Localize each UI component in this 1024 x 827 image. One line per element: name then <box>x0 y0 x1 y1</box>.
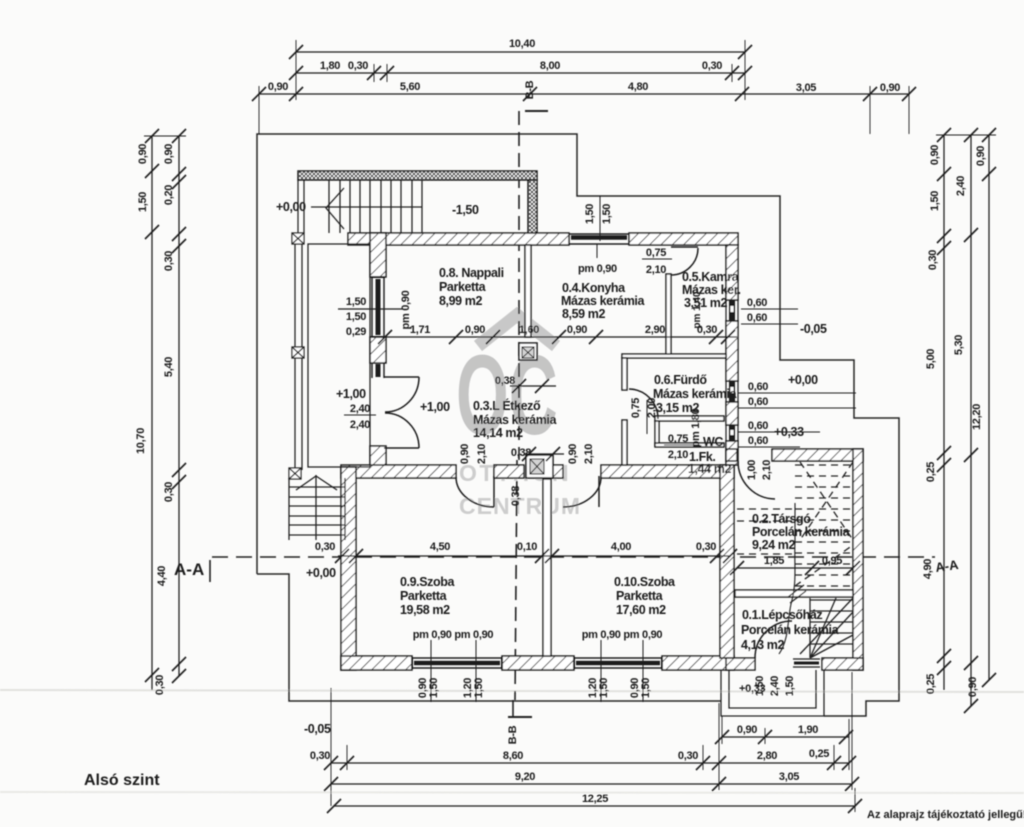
french double door to terrace leaf bottom <box>384 447 419 449</box>
right exterior wall segment below wc window <box>726 441 738 465</box>
svg-text:0,60: 0,60 <box>748 396 768 408</box>
bottom dim row A (0.90 1.90) <box>715 716 853 744</box>
svg-text:5,30: 5,30 <box>953 335 965 355</box>
kamra door leaf <box>671 246 698 248</box>
svg-text:0,20: 0,20 <box>163 185 175 205</box>
svg-text:14,14 m2: 14,14 m2 <box>473 426 523 440</box>
door to szoba 0.9 leaf <box>493 476 495 507</box>
svg-text:0,60: 0,60 <box>747 297 767 309</box>
furdo door dim extension <box>646 400 648 434</box>
svg-text:1,50: 1,50 <box>601 204 613 224</box>
svg-text:0.9.Szoba: 0.9.Szoba <box>400 575 456 589</box>
svg-text:0,90: 0,90 <box>137 144 149 164</box>
bottom window 0.9 leaders <box>431 640 476 702</box>
wide dashed rungs behind text <box>737 509 795 554</box>
svg-text:0,38: 0,38 <box>495 375 515 387</box>
svg-text:5,40: 5,40 <box>163 357 175 377</box>
svg-text:2,40: 2,40 <box>350 419 370 431</box>
svg-text:0,75: 0,75 <box>668 433 688 445</box>
upper terrace stair walk line <box>311 206 422 208</box>
wc door dim underline <box>664 444 700 446</box>
door to szoba 0.10 arc <box>563 477 601 507</box>
terrace outer rail lines <box>294 244 296 348</box>
top dim row 2 (1.80 0.30 8.00 0.30) <box>289 64 752 82</box>
svg-text:9,24 m2: 9,24 m2 <box>752 538 796 552</box>
svg-text:1,50: 1,50 <box>784 676 796 696</box>
bottom extension lines <box>331 672 855 812</box>
svg-text:Mázas kerámia: Mázas kerámia <box>653 387 737 401</box>
stair above (dashed) in room 0.2 rungs <box>737 462 853 586</box>
svg-text:0.4.Konyha: 0.4.Konyha <box>562 281 626 295</box>
svg-text:8,59 m2: 8,59 m2 <box>562 307 606 321</box>
right exterior wall segment kamra-furdo <box>726 321 738 381</box>
svg-text:1,00: 1,00 <box>746 460 758 480</box>
left terrace structures <box>289 233 824 716</box>
svg-text:19,58 m2: 19,58 m2 <box>400 603 450 617</box>
svg-text:pm 0,90 pm 0,90: pm 0,90 pm 0,90 <box>582 629 663 641</box>
interior dim line y337 (1.71 0.90 1.60 0.90 2.90 0.30) <box>378 330 737 344</box>
lower-left garden stair treads <box>289 487 345 535</box>
svg-text:WC: WC <box>703 435 723 449</box>
svg-text:1,50: 1,50 <box>640 678 652 698</box>
svg-text:pm 0,90: pm 0,90 <box>400 290 412 329</box>
bottom window szoba 0.10 <box>574 657 662 669</box>
svg-text:0,30: 0,30 <box>163 251 175 271</box>
upper terrace left edge wall <box>297 180 299 233</box>
bottom window 0.10 leaders <box>601 640 643 702</box>
svg-text:1,71: 1,71 <box>410 324 430 336</box>
right exterior wall upper segment (kamra) <box>726 245 738 300</box>
kitchen pm leader <box>596 244 598 258</box>
french double door to terrace leaf top <box>384 376 419 378</box>
upper terrace balustrade cross-hatched band <box>298 171 537 180</box>
bottom window stairhall 0.1 <box>793 659 820 667</box>
svg-text:0,90: 0,90 <box>459 444 471 464</box>
main top wall (right of kitchen window) <box>629 233 738 245</box>
bottom dim row D (12.25) <box>327 799 862 813</box>
terrace post bottom <box>289 468 301 479</box>
svg-text:0,25: 0,25 <box>925 462 937 482</box>
svg-text:0,60: 0,60 <box>748 435 768 447</box>
svg-text:+0,00: +0,00 <box>276 200 306 214</box>
svg-text:3,05: 3,05 <box>796 82 816 94</box>
french door arc top <box>385 377 419 412</box>
svg-text:0,60: 0,60 <box>748 381 768 393</box>
svg-text:0,30: 0,30 <box>154 675 166 695</box>
svg-text:Az alaprajz tájékoztató jelleg: Az alaprajz tájékoztató jellegű! <box>867 809 1024 821</box>
kamra door dim underline <box>642 258 672 260</box>
svg-text:3,05: 3,05 <box>779 771 799 783</box>
window dim 0.60 pair furdo <box>738 393 856 408</box>
svg-text:0.5.Kamra: 0.5.Kamra <box>682 270 740 284</box>
svg-text:4,40: 4,40 <box>156 566 168 586</box>
svg-text:0,30: 0,30 <box>702 60 722 72</box>
svg-text:-0,05: -0,05 <box>304 722 331 736</box>
window 1.50 stack underline upper-left <box>338 308 403 310</box>
svg-text:1,50: 1,50 <box>598 678 610 698</box>
svg-text:Mázas kerámia: Mázas kerámia <box>561 294 645 308</box>
svg-text:+1,00: +1,00 <box>336 387 366 401</box>
middle wall band (left part) <box>341 465 456 478</box>
upper-left exterior wall segment below windows <box>370 446 386 467</box>
entry section bottom wall left of door <box>726 658 755 670</box>
svg-text:2,40: 2,40 <box>769 676 781 696</box>
svg-text:0,30: 0,30 <box>315 541 335 553</box>
lower-left exterior wall <box>341 467 356 670</box>
svg-text:0,25: 0,25 <box>925 674 937 694</box>
svg-text:12,20: 12,20 <box>971 404 983 430</box>
scan artifact line lower <box>0 792 1024 793</box>
svg-text:1,90: 1,90 <box>798 724 818 736</box>
left wall window upper <box>371 277 385 337</box>
front entrance door arc in 0.1 <box>755 621 792 658</box>
right exterior wall segment furdo-wc <box>726 402 738 425</box>
upper-left exterior wall segment <box>370 233 386 277</box>
svg-text:0,90: 0,90 <box>929 145 941 165</box>
svg-text:0,90: 0,90 <box>975 146 987 166</box>
svg-text:4,90: 4,90 <box>922 559 934 579</box>
svg-text:2,10: 2,10 <box>646 264 666 276</box>
svg-text:1,44 m2: 1,44 m2 <box>688 462 732 476</box>
french door arc bottom <box>385 413 419 448</box>
top dim row 3 (0.90 5.60 4.80 / 3.05 0.90) <box>252 86 916 134</box>
svg-text:0,10: 0,10 <box>517 541 537 553</box>
svg-text:8,99 m2: 8,99 m2 <box>439 294 483 308</box>
door to szoba 0.10 leaf <box>598 476 600 507</box>
svg-text:0,38: 0,38 <box>511 447 531 459</box>
section line A-A (horizontal dashed) <box>210 557 935 582</box>
lower-left stair start arrows <box>296 476 337 490</box>
lower-left stair edge <box>289 478 345 540</box>
bottom dim row C (9.20 3.05) <box>324 777 859 791</box>
svg-text:0,30: 0,30 <box>310 750 330 762</box>
furdo left wall upper <box>622 358 627 390</box>
svg-text:+0,33: +0,33 <box>774 425 804 439</box>
bottom wall (between windows) <box>502 656 574 670</box>
kitchen window top <box>569 234 629 244</box>
interior dim line y556 (0.30 4.50 0.10 4.00 0.30) <box>335 549 737 563</box>
svg-text:1,50: 1,50 <box>473 678 485 698</box>
dim 0.38 lower chimney <box>522 447 564 461</box>
building envelope outline <box>257 134 899 716</box>
right wall window wc <box>726 425 738 441</box>
svg-text:Porcelán kerámia: Porcelán kerámia <box>741 623 840 637</box>
svg-text:2,80: 2,80 <box>757 750 777 762</box>
svg-text:10,40: 10,40 <box>509 38 535 50</box>
svg-text:2,10: 2,10 <box>476 444 488 464</box>
svg-text:2,90: 2,90 <box>645 324 665 336</box>
right dim chain 2 <box>964 128 978 713</box>
middle wall band (chimney to door2) <box>552 465 563 478</box>
partition 0.2 / 0.1 <box>735 590 853 597</box>
chimney flue box lower <box>526 455 553 478</box>
svg-text:0,90: 0,90 <box>567 444 579 464</box>
furdo top wall <box>622 354 726 358</box>
svg-text:0,90: 0,90 <box>268 81 288 93</box>
svg-text:Mázas kerámia: Mázas kerámia <box>473 413 557 427</box>
lower right exterior wall <box>720 465 734 658</box>
dashed diagonal lower <box>795 545 853 586</box>
svg-text:4,80: 4,80 <box>628 81 648 93</box>
svg-text:-1,50: -1,50 <box>452 203 479 217</box>
top dim row 1 (10.40) <box>289 40 752 100</box>
svg-text:0.8. Nappali: 0.8. Nappali <box>439 266 504 280</box>
svg-text:0,38: 0,38 <box>510 486 522 506</box>
entry section top wall (left of door) <box>726 449 737 461</box>
svg-text:10,70: 10,70 <box>135 428 147 454</box>
svg-text:1,80: 1,80 <box>320 60 340 72</box>
lower-left stair walk line <box>315 475 317 540</box>
svg-text:0.6.Fürdő: 0.6.Fürdő <box>654 373 707 387</box>
upper terrace stair treads <box>329 180 422 233</box>
svg-text:0,30: 0,30 <box>163 482 175 502</box>
svg-text:4,50: 4,50 <box>430 541 450 553</box>
middle wall band (between doors) <box>494 465 524 478</box>
stair 0.1 up-direction line <box>800 598 853 654</box>
entry section right wall <box>853 449 863 670</box>
svg-text:2,40: 2,40 <box>955 176 967 196</box>
svg-text:5,60: 5,60 <box>400 81 420 93</box>
dim 0.38 upper chimney <box>510 379 556 393</box>
scan artifact line upper <box>0 690 1024 692</box>
svg-text:pm 0,90: pm 0,90 <box>578 263 617 275</box>
svg-text:12,25: 12,25 <box>582 793 608 805</box>
kitchen window leader <box>599 196 601 241</box>
svg-text:0,90: 0,90 <box>163 144 175 164</box>
svg-text:+0,00: +0,00 <box>788 373 818 387</box>
middle wall band (right part) <box>601 465 734 478</box>
svg-text:B-B: B-B <box>507 725 519 744</box>
svg-text:Parketta: Parketta <box>616 589 664 603</box>
svg-text:4,00: 4,00 <box>611 541 631 553</box>
terrace post middle <box>292 347 304 358</box>
partition nappali-konyha <box>525 245 531 337</box>
furdo left wall lower <box>622 420 627 465</box>
svg-text:0,60: 0,60 <box>748 420 768 432</box>
svg-text:1,85: 1,85 <box>764 555 784 567</box>
entry interior dim y568 (1.85 0.95) <box>730 561 860 575</box>
svg-text:2,40: 2,40 <box>350 403 370 415</box>
terrace floor outline <box>308 244 370 467</box>
section line B-B (vertical dashed) <box>508 111 548 717</box>
svg-text:17,60 m2: 17,60 m2 <box>616 603 666 617</box>
svg-text:2,10: 2,10 <box>583 444 595 464</box>
svg-text:8,60: 8,60 <box>503 750 523 762</box>
svg-text:0,29: 0,29 <box>346 326 366 338</box>
kamra door arc <box>671 248 698 275</box>
door to szoba 0.9 arc <box>456 477 494 507</box>
svg-text:0,25: 0,25 <box>809 748 829 760</box>
svg-text:8,00: 8,00 <box>540 60 560 72</box>
window dim 0.60 pair wc <box>738 432 820 447</box>
svg-text:0,60: 0,60 <box>747 312 767 324</box>
entry walk line <box>779 503 795 654</box>
svg-text:0.1.Lépcsőház: 0.1.Lépcsőház <box>742 608 822 622</box>
svg-text:0.10.Szoba: 0.10.Szoba <box>614 575 676 589</box>
svg-text:1,50: 1,50 <box>346 311 366 323</box>
svg-text:0,30: 0,30 <box>927 250 939 270</box>
svg-text:Alsó szint: Alsó szint <box>84 772 160 789</box>
french door 2.40 underline <box>344 414 376 416</box>
chimney flue box upper <box>519 343 537 360</box>
stair 0.1 winder lines <box>810 598 853 658</box>
entry door arc into 0.2 <box>738 461 775 499</box>
svg-text:0.3.L Étkező: 0.3.L Étkező <box>473 398 541 413</box>
svg-text:1,50: 1,50 <box>137 192 149 212</box>
svg-text:0,90: 0,90 <box>567 324 587 336</box>
svg-text:0,75: 0,75 <box>630 398 642 418</box>
dashed X of stair opening <box>800 462 853 540</box>
upper-left exterior wall segment between windows <box>370 337 386 363</box>
svg-text:0,75: 0,75 <box>646 247 666 259</box>
entry stoop inner <box>729 670 816 708</box>
wc bottom wall <box>655 443 724 447</box>
wc left wall <box>655 421 659 446</box>
svg-text:0,90: 0,90 <box>465 324 485 336</box>
svg-text:3,15 m2: 3,15 m2 <box>656 401 700 415</box>
svg-text:0,90: 0,90 <box>967 677 979 697</box>
bottom wall (left of window 1) <box>341 656 412 670</box>
svg-text:pm 0,90 pm 0,90: pm 0,90 pm 0,90 <box>413 629 494 641</box>
svg-text:2,10: 2,10 <box>668 449 688 461</box>
svg-text:4,13 m2: 4,13 m2 <box>741 638 785 652</box>
svg-text:3,51 m2: 3,51 m2 <box>684 296 728 310</box>
svg-text:1,60: 1,60 <box>519 324 539 336</box>
svg-text:0.2.Társgó: 0.2.Társgó <box>752 512 811 526</box>
bottom wall (right of window 2) <box>662 656 734 670</box>
svg-text:Porcelán kerámia: Porcelán kerámia <box>752 525 851 539</box>
window dim 0.60 pair kamra <box>741 309 798 324</box>
main top wall (left of kitchen window) <box>348 233 569 245</box>
svg-text:0,90: 0,90 <box>737 724 757 736</box>
left wall window small <box>372 363 384 378</box>
svg-text:0,30: 0,30 <box>678 750 698 762</box>
svg-text:0,30: 0,30 <box>696 541 716 553</box>
svg-text:+1,00: +1,00 <box>420 400 450 414</box>
svg-text:1,50: 1,50 <box>584 204 596 224</box>
right wall window kamra <box>726 300 738 321</box>
upper terrace balustrade right column <box>528 180 537 233</box>
svg-text:0,30: 0,30 <box>348 60 368 72</box>
svg-text:0,95: 0,95 <box>822 555 842 567</box>
partition szoba 0.9 / 0.10 <box>543 479 551 656</box>
svg-text:9,20: 9,20 <box>515 771 535 783</box>
left dim chain outer <box>144 129 186 690</box>
stair flight room 0.1 side <box>809 598 811 658</box>
right dim chain 3 <box>982 128 996 687</box>
entry section top wall (right of door) <box>772 449 863 461</box>
terrace post top <box>292 233 304 244</box>
svg-text:1,50: 1,50 <box>346 296 366 308</box>
upper terrace stair start arrows <box>326 188 344 229</box>
svg-text:+0,33: +0,33 <box>739 683 766 695</box>
entry section bottom wall right of window <box>822 658 863 670</box>
svg-text:Parketta: Parketta <box>439 280 487 294</box>
furdo door arc <box>629 389 658 419</box>
svg-text:1,50: 1,50 <box>929 191 941 211</box>
bottom window szoba 0.9 <box>412 657 502 669</box>
bottom dim row B (0.30 8.60 0.30 2.80 0.25) <box>324 756 856 770</box>
watermark Otthon Centrum logo <box>456 315 581 519</box>
entry stoop outer <box>721 670 824 716</box>
furdo bottom wall <box>655 416 724 421</box>
svg-text:0,90: 0,90 <box>880 82 900 94</box>
stair flight room 0.1 treads <box>810 600 853 644</box>
svg-text:Parketta: Parketta <box>400 589 448 603</box>
svg-text:Mázas ker.: Mázas ker. <box>682 283 741 297</box>
svg-text:2,10: 2,10 <box>761 460 773 480</box>
right wall window furdo <box>726 381 738 402</box>
svg-text:5,00: 5,00 <box>925 349 937 369</box>
svg-text:+0,00: +0,00 <box>306 566 336 580</box>
svg-text:-0,05: -0,05 <box>800 322 827 336</box>
svg-text:1,50: 1,50 <box>428 678 440 698</box>
left dim chain inner <box>172 129 186 683</box>
partition konyha-kamra <box>666 274 671 356</box>
right dim chain 1 <box>936 128 996 690</box>
